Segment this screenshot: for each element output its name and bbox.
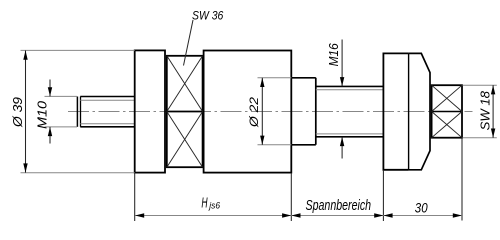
svg-text:M10: M10 [35, 100, 50, 129]
hex SW18 upper X [432, 85, 462, 111]
svg-text:H: H [201, 194, 207, 211]
hex SW18 lower X [432, 112, 462, 138]
centerline axis [68, 111, 473, 113]
bottom dims extension lines [134, 173, 136, 221]
svg-text:js6: js6 [208, 200, 221, 211]
threaded shaft M16 core lines [316, 89, 384, 91]
hex SW36 body [167, 56, 203, 167]
hex SW36 mid line [167, 111, 203, 113]
dim SW18 extension lines [463, 84, 497, 86]
dim D22 line [261, 78, 263, 145]
threaded shaft M16 crest lines [316, 85, 384, 87]
hex SW36 upper X [167, 56, 203, 112]
hex SW18 body [432, 85, 462, 138]
dim M16 line [341, 40, 343, 87]
dim 30 line [383, 215, 462, 217]
svg-text:30: 30 [415, 200, 428, 215]
washer divider [408, 53, 410, 169]
dim M10 extension lines [45, 95, 78, 97]
label SW36 leader [184, 20, 194, 66]
hex SW18 mid line [432, 111, 462, 113]
washer disc [383, 53, 408, 169]
dim D39 line [25, 51, 27, 173]
dim Spannbereich line [291, 215, 383, 217]
cylinder body [204, 51, 292, 173]
svg-text:Ø 39: Ø 39 [11, 97, 25, 128]
flange D39 [135, 50, 165, 172]
thread stud M10 core lines [80, 99, 134, 101]
thread stud M10 end face [76, 97, 78, 127]
thread stud M10 crest lines [80, 96, 134, 98]
svg-text:M16: M16 [327, 43, 341, 66]
dim D22 extension lines [258, 77, 292, 79]
dim H js6 line [135, 215, 291, 217]
hex SW36 lower X [167, 112, 203, 168]
svg-text:Spannbereich: Spannbereich [306, 198, 372, 214]
dim SW18 line [492, 85, 494, 138]
chamfered collar [409, 53, 430, 169]
svg-text:Ø 22: Ø 22 [247, 97, 261, 129]
dim D39 extension lines [21, 49, 135, 51]
svg-text:SW 36: SW 36 [192, 11, 224, 23]
thread stud M10 chamfer line [80, 97, 82, 127]
dim M10 line [49, 80, 51, 97]
svg-text:SW 18: SW 18 [477, 90, 492, 130]
cylinder D22 [291, 77, 316, 79]
